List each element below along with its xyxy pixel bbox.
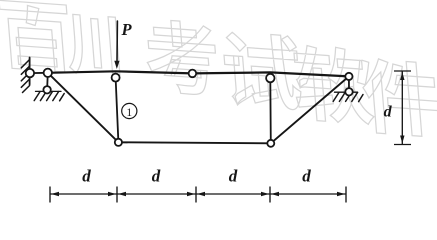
node: right support top xyxy=(345,73,352,80)
ground baseline under left support xyxy=(36,90,62,92)
load P arrow shaft xyxy=(116,21,118,62)
dimension labels d x4 xyxy=(82,167,311,186)
wire right diagonal member xyxy=(271,76,349,143)
bottom tick xyxy=(394,144,411,146)
dimension arrowheads bottom xyxy=(51,192,345,196)
node: bottom left xyxy=(115,139,122,146)
svg-text:1: 1 xyxy=(126,107,132,119)
svg-text:d: d xyxy=(82,167,91,186)
tick 1 xyxy=(49,187,51,203)
ground baseline under right support xyxy=(335,91,358,93)
node: beam left end xyxy=(44,69,52,77)
wire bottom chord xyxy=(118,142,270,143)
node: right ground pin xyxy=(345,88,352,95)
node: under load P xyxy=(112,74,120,82)
watermark 百川考试软件 xyxy=(0,0,437,137)
wire top chord beam xyxy=(48,71,349,76)
ground hatching under left support xyxy=(34,92,64,101)
tick 3 xyxy=(195,187,197,203)
svg-text:d: d xyxy=(384,104,393,121)
svg-text:P: P xyxy=(121,20,133,39)
node: bottom right xyxy=(267,140,274,147)
tick 4 xyxy=(269,187,271,203)
tick 5 xyxy=(345,187,347,203)
node: right hanger top xyxy=(266,74,274,82)
label circled 1 member mark xyxy=(122,103,137,118)
svg-text:d: d xyxy=(229,167,238,186)
wire left diagonal member xyxy=(48,73,119,143)
dimension line right (vertical) xyxy=(394,71,411,145)
link beam end down to ground pin xyxy=(46,73,49,90)
wire left vertical member (1) xyxy=(116,78,119,143)
left wall hatching xyxy=(21,60,29,93)
svg-text:d: d xyxy=(152,167,161,186)
link right support pin to ground pin xyxy=(348,76,350,91)
link wall pin to beam end xyxy=(30,72,48,74)
svg-text:d: d xyxy=(302,167,311,186)
load P arrowhead xyxy=(114,61,119,69)
node circles (hinges) xyxy=(26,69,353,147)
node: wall pin xyxy=(26,69,34,77)
ground hatching under right support xyxy=(333,92,363,101)
tick 2 xyxy=(116,187,118,203)
top tick xyxy=(394,70,411,72)
right dimension arrowheads xyxy=(400,72,404,144)
wire right vertical member xyxy=(269,78,272,143)
dimension line bottom xyxy=(50,187,346,203)
node: middle hinge xyxy=(189,70,197,78)
left wall line xyxy=(29,58,31,85)
node: left ground pin xyxy=(43,86,50,93)
